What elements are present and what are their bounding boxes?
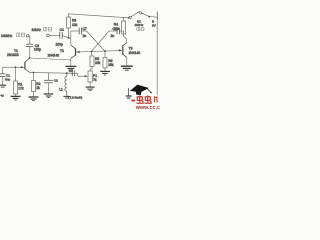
watermark 虫 char 2 <box>144 95 151 103</box>
ground T3 <box>121 66 133 70</box>
wire R5 to pot <box>90 67 92 72</box>
capacitor C5 series <box>72 70 74 76</box>
wire C8 left lead <box>109 30 117 32</box>
svg-text:L1: L1 <box>59 87 63 91</box>
svg-text:2N4140: 2N4140 <box>129 51 141 55</box>
ground P1 <box>86 87 95 91</box>
svg-text:C7: C7 <box>83 27 87 31</box>
transistor T2 2N4140 <box>71 45 76 58</box>
ground C2 <box>44 94 54 98</box>
svg-text:50p: 50p <box>5 78 10 82</box>
wire wiper arrow <box>78 73 85 76</box>
watermark dash <box>132 100 135 102</box>
wire T1 emitter bus <box>30 71 74 74</box>
svg-text:2n: 2n <box>83 34 87 38</box>
ground C1 <box>0 85 6 87</box>
svg-text:WWW.CC.C: WWW.CC.C <box>136 105 160 110</box>
capacitor C7 2n <box>79 28 81 35</box>
svg-text:2N1823: 2N1823 <box>7 53 19 57</box>
terminal 100kHz output <box>1 34 29 38</box>
watermark logo cap <box>130 85 152 95</box>
wire C3 to T1 collector node <box>29 47 31 58</box>
wire node to T2 collector / C7 left <box>69 37 71 39</box>
node T1 collector <box>29 57 31 59</box>
watermark partial char right <box>155 96 157 102</box>
svg-text:C4: C4 <box>60 28 64 32</box>
label switch 开关 <box>137 28 144 31</box>
svg-text:2n: 2n <box>111 34 115 38</box>
wire R6 to ground <box>104 68 106 71</box>
junction rail R4 <box>128 17 130 19</box>
wire terminal to C4 <box>49 34 59 36</box>
resistor R6 25k <box>103 51 114 68</box>
resistor R2 2k <box>32 73 41 92</box>
wire C7 left lead <box>71 30 79 32</box>
svg-text:C2: C2 <box>54 79 58 83</box>
svg-text:10kHz: 10kHz <box>32 28 42 32</box>
node base R6 <box>104 50 106 52</box>
capacitor C3 100p <box>26 44 33 46</box>
terminal 10kHz output <box>32 28 50 37</box>
wire T3 emitter to ground <box>126 57 128 66</box>
wire T1 base lead <box>3 66 21 68</box>
wire R2 to ground <box>33 92 35 97</box>
node R3/C4/T2 collector <box>68 37 70 39</box>
capacitor C8 2n <box>117 28 119 35</box>
wire C5 to pot wiper <box>75 72 78 74</box>
wire cross diagonal right <box>92 31 110 51</box>
svg-text:T2: T2 <box>60 49 64 53</box>
potentiometer P1 <box>88 71 97 82</box>
node R1 top <box>15 66 17 68</box>
svg-text:20k: 20k <box>95 61 101 65</box>
wire top supply rail <box>69 14 129 18</box>
ground T2 <box>65 66 76 70</box>
svg-text:17k: 17k <box>18 87 24 91</box>
wire R1 to ground <box>15 94 17 96</box>
wire rail right of switch <box>142 13 157 17</box>
svg-text:100kHz: 100kHz <box>1 34 13 38</box>
switch K1 <box>129 11 142 18</box>
wire T1 collector to T2 emitter ground node <box>30 58 71 60</box>
node base R5 <box>91 51 93 53</box>
transistor T1 2N1823 <box>25 58 30 72</box>
svg-text:25k: 25k <box>108 63 114 67</box>
wire C4 to node <box>62 35 68 37</box>
wire base line T2-T3 <box>76 51 120 52</box>
wire C1 to ground <box>2 77 4 85</box>
svg-text:100p: 100p <box>34 48 42 52</box>
wire T2 emitter to ground <box>70 58 72 66</box>
capacitor C1 50p (left edge) <box>2 67 4 73</box>
svg-text:(7.2-5mH): (7.2-5mH) <box>68 96 82 100</box>
label 输出 (10k) <box>44 27 52 31</box>
svg-text:2k: 2k <box>36 86 40 90</box>
capacitor C2 <box>48 73 50 80</box>
label 输出 (100k) <box>17 33 25 37</box>
svg-text:C8: C8 <box>113 27 117 31</box>
wire terminal to C3 <box>28 36 31 44</box>
node R2 top <box>33 72 35 74</box>
resistor R5 20k <box>90 51 101 66</box>
wire R4 bottom to T3 collector <box>124 34 127 43</box>
ground battery (under watermark) <box>126 88 132 98</box>
svg-text:100p: 100p <box>56 43 64 47</box>
wire pot to ground <box>89 82 91 87</box>
capacitor C4 100p <box>60 32 62 39</box>
wire C7 to diagonal <box>82 30 87 32</box>
svg-text:C5: C5 <box>69 69 73 73</box>
ground R1 <box>11 96 21 100</box>
ground R2 <box>29 97 39 101</box>
wire R3 bottom to node <box>68 28 70 38</box>
wire cross diagonal left <box>87 31 106 51</box>
battery B 6V drop wire <box>156 17 158 95</box>
svg-text:2N4140: 2N4140 <box>48 54 60 58</box>
wire C2 to ground <box>48 83 50 94</box>
transistor T3 2N4140 <box>123 43 127 58</box>
ground R6 <box>100 71 110 75</box>
inductor L1 <box>65 73 67 96</box>
svg-text:10kHz: 10kHz <box>135 23 144 27</box>
node L1 top <box>66 72 68 74</box>
battery B positive stub <box>156 12 158 20</box>
svg-text:7k: 7k <box>93 78 97 82</box>
resistor R1 17k <box>14 67 24 94</box>
svg-text:4z: 4z <box>1 94 5 98</box>
svg-text:10k: 10k <box>72 23 78 27</box>
watermark 虫 char 1 <box>136 95 143 103</box>
ground L1 <box>63 96 70 98</box>
wire C8 right to R4 bottom <box>119 31 123 34</box>
resistor R3 <box>67 17 78 28</box>
resistor R4 <box>114 18 126 35</box>
